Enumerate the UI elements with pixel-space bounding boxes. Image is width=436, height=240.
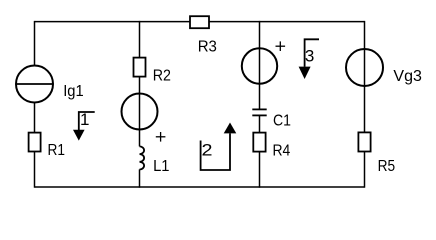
- svg-text:3: 3: [305, 46, 314, 65]
- resistor R1: [29, 133, 41, 152]
- wire branch3 lower: [259, 151, 261, 188]
- svg-text:C1: C1: [273, 113, 291, 130]
- wire branch2 lower: [139, 169, 141, 187]
- current arrow 2: [201, 123, 237, 171]
- current source Ig1: [16, 66, 53, 103]
- current arrow 3: [299, 39, 319, 79]
- current arrow 1: [73, 112, 95, 141]
- wire branch2 through source: [139, 77, 141, 147]
- svg-text:1: 1: [80, 110, 89, 129]
- voltage source V3: [242, 48, 277, 83]
- svg-text:Ig1: Ig1: [63, 83, 84, 100]
- svg-text:2: 2: [202, 140, 213, 159]
- svg-text:R5: R5: [378, 158, 396, 175]
- svg-text:R2: R2: [153, 67, 171, 84]
- svg-text:R4: R4: [273, 142, 291, 159]
- inductor L1: [140, 146, 145, 169]
- wire branch3 through source: [259, 21, 261, 109]
- polarity plus V3: [276, 41, 286, 51]
- svg-text:L1: L1: [153, 158, 169, 175]
- svg-text:R3: R3: [198, 39, 217, 56]
- svg-text:R1: R1: [48, 142, 66, 159]
- resistor R3: [190, 16, 209, 28]
- resistor R4: [253, 133, 265, 152]
- wire bottom rail: [35, 186, 365, 188]
- wire left branch lower: [34, 151, 36, 188]
- wire branch3 middle: [259, 115, 261, 133]
- voltage source V2: [122, 94, 158, 130]
- wire branch2 upper: [139, 21, 141, 58]
- wire right branch through source: [364, 21, 366, 133]
- wire right branch lower: [364, 151, 366, 188]
- resistor R5: [358, 132, 370, 151]
- wire left branch upper: [34, 21, 36, 66]
- capacitor C1: [252, 109, 266, 115]
- svg-text:Vg3: Vg3: [393, 68, 422, 85]
- wire left branch middle: [34, 103, 36, 134]
- polarity plus V2: [156, 132, 166, 142]
- wire top rail: [35, 21, 365, 23]
- voltage source Vg3: [346, 49, 383, 86]
- resistor R2: [134, 58, 146, 77]
